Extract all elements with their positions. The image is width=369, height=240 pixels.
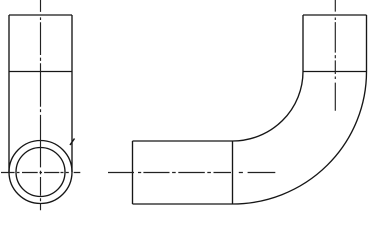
left view: rectangle right side	[71, 15, 73, 172]
right view: elbow outer arc	[233, 72, 367, 205]
right view: horizontal pipe joint line	[232, 141, 234, 204]
right view: horizontal pipe left end edge	[132, 141, 134, 204]
left view: vertical centerline	[40, 0, 42, 210]
left view: pipe end rectangle top edge	[9, 14, 72, 16]
right view: elbow inner arc	[233, 72, 304, 142]
right view: vertical pipe joint line	[303, 71, 367, 73]
left view: pipe outer circle	[9, 141, 72, 204]
left view: diagonal tick mark	[70, 139, 75, 146]
right view: vertical pipe centerline	[334, 0, 336, 111]
left view: joint line	[9, 71, 72, 73]
left view: horizontal centerline	[1, 172, 80, 174]
right view: vertical pipe left side	[302, 15, 304, 72]
right view: horizontal pipe bottom edge	[133, 203, 233, 205]
right view: vertical pipe top edge	[303, 14, 367, 16]
left view: rectangle left side	[8, 15, 10, 172]
right view: horizontal pipe centerline	[108, 172, 275, 174]
left view: pipe inner circle (bore)	[16, 148, 65, 197]
right view: vertical pipe right side	[366, 15, 368, 72]
right view: horizontal pipe top edge	[133, 140, 233, 142]
